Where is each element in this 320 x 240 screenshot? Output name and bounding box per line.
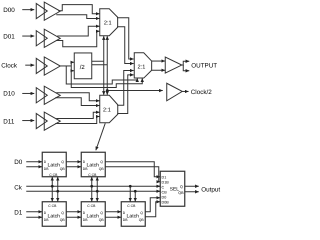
svg-text:D1B: D1B [162,180,170,184]
wire U3 out comp to U2 pin4 [117,75,133,114]
svg-text:D11: D11 [3,118,15,125]
buffer A9 (D11 stage1) [36,113,47,128]
wire Clock lead [25,64,34,66]
divider U4 /2 box [74,53,92,79]
wire half clock comp vertical [106,38,108,94]
pin L2.C arrow [91,177,93,179]
wire L4.Q to L5.D [105,211,121,213]
wire D11 lead [22,120,34,122]
wire D01 lead [22,35,34,37]
wire L1.QB to L2.DB [66,166,81,168]
wire D10 comp to U3 pin2 [55,98,99,106]
buffer A7 (D10 stage1) [36,88,47,103]
svg-text:D10: D10 [3,90,15,97]
wire L4.QB to L5.DB [105,216,121,218]
svg-text:Clock: Clock [1,62,18,69]
junction L5.C tap [129,185,132,188]
pin L3.C arrow [51,199,53,201]
buffer A2 (D00 stage2) [44,2,60,20]
wire OUTPUT true [182,61,190,65]
svg-text:QB: QB [60,218,66,222]
svg-text:C: C [162,185,165,189]
pin U3 sel2 arrow [106,92,108,95]
svg-text:2:1: 2:1 [138,64,146,70]
latch L2 (top row second) [81,152,105,177]
wire D00 true to U1 pin1 [58,5,99,14]
pin U1 sel2 arrow [106,36,108,39]
wire clock stub L5 comp [134,191,136,200]
wire clock stub L5 true [129,186,131,200]
wire divider out comp [92,64,108,66]
svg-text:D0B: D0B [162,200,170,204]
wire L2.QB to SEL.D1B [105,167,160,182]
pin L4.C arrow [91,199,93,201]
buffer A4 (D01 stage2) [44,29,60,47]
svg-text:/2: /2 [80,64,86,71]
pin L2.CB arrow [96,177,98,179]
svg-text:Ck: Ck [14,184,23,191]
latch L5 (bottom row third) [121,202,145,227]
junction L4.CB tap [96,190,99,193]
wire Ck comp line [26,190,160,192]
buffer A11 output driver [165,57,182,73]
latch L1 (top row first) [42,152,66,177]
svg-text:D0: D0 [162,195,167,199]
pin L1.C arrow [51,177,53,179]
buffer A8 (D10 stage2) [44,86,60,104]
svg-text:D: D [44,211,47,215]
wire OUTPUT comp [183,65,189,71]
junction L1.C tap [51,185,54,188]
svg-text:D: D [123,211,126,215]
svg-text:C CB: C CB [87,204,96,208]
pin L1.CB arrow [57,177,59,179]
wire D1 true [26,211,42,213]
svg-text:Clock/2: Clock/2 [191,89,212,96]
mux U1 2:1 top [100,9,118,36]
pin SEL.CB arrow [156,190,160,192]
wire clock stub L2/L4 true [91,178,93,200]
wire L5.QB to SEL.D0B [145,202,160,217]
wire half clock to Clock/2 buffer [107,90,163,92]
svg-text:D00: D00 [3,7,15,14]
pin L5.C arrow [129,199,131,201]
svg-text:CB: CB [162,190,168,194]
mux U3 2:1 bottom [100,95,118,123]
svg-text:Q: Q [61,160,64,164]
mux U5 SEL box [160,171,185,206]
svg-text:C CB: C CB [49,173,58,177]
svg-text:Latch: Latch [48,214,61,220]
wire D10 lead [22,92,34,94]
wire Clock/2 out [182,90,188,92]
svg-text:Latch: Latch [48,163,61,169]
svg-text:2:1: 2:1 [104,21,112,27]
wire L1.Q to L2.D [66,161,81,163]
junction L5.CB tap [134,190,137,193]
wire L3.Q to L4.D [66,211,81,213]
pin U1 sel1 arrow [103,36,105,39]
wire full clock A down-right to U2 sel1 [66,66,137,84]
wire U2 out comp to output buffer [152,69,165,71]
wire L5.Q to SEL.D0 [145,198,160,212]
svg-text:OUTPUT: OUTPUT [191,62,217,69]
wire D00 lead [22,9,34,11]
junction L3.CB tap [56,190,59,193]
svg-text:D0: D0 [14,159,23,166]
wire D00 comp to U1 pin2 [56,15,99,19]
wire divider input comp [71,70,74,72]
wire D01 true to U1 pin3 [57,26,99,36]
buffer A6 (Clock stage2) [44,57,60,75]
wire clock stub L2/L4 comp [96,178,98,200]
svg-text:Q: Q [100,160,103,164]
wire L2.Q to SEL.D1 [105,162,160,177]
pin U3 sel1 arrow [103,92,105,95]
svg-text:Q: Q [61,211,64,215]
wire D01 comp to U1 pin4 [56,31,99,47]
svg-text:C CB: C CB [48,204,57,208]
pin L5.CB arrow [134,199,136,201]
buffer A5 (Clock stage1) [36,58,47,73]
junction half clock comp tap [106,89,109,92]
wire U1 out true to U2 pin1 [117,18,134,59]
svg-text:D01: D01 [3,33,15,40]
latch L4 (bottom row second) [81,202,105,227]
wire D11 comp to U3 pin4 [55,116,99,123]
svg-text:D: D [44,160,47,164]
wire U1 out comp to U2 pin2 [117,27,134,64]
buffer A3 (D01 stage1) [36,31,47,46]
wire D11 true to U3 pin3 [56,112,99,118]
wire clock buffer to divider fork [60,65,71,67]
annotation arrow mux to latch implementation [96,123,105,150]
svg-text:D: D [83,211,86,215]
wire SEL.Q output [185,185,199,187]
wire D1 comp [26,216,42,218]
mux U2 2:1 middle [134,53,151,78]
svg-text:Q: Q [100,211,103,215]
wire clock stub L1/L3 true [51,178,53,200]
svg-text:Output: Output [201,186,220,193]
svg-text:C CB: C CB [88,173,97,177]
wire Ck true line [26,185,160,187]
wire half clock true vertical U1 sel to U3 sel [103,38,105,94]
wire L3.QB to L4.DB [66,216,81,218]
wire U3 out true to U2 pin3 [117,71,133,106]
wire D0 comp [26,166,42,168]
svg-text:Latch: Latch [87,214,100,220]
buffer A12 clock/2 driver [167,83,183,101]
junction L2.C tap [90,185,93,188]
wire D0 true [26,161,42,163]
pin L4.CB arrow [96,199,98,201]
wire divider input true [71,61,74,63]
svg-text:QB: QB [139,218,145,222]
svg-text:QB: QB [99,218,105,222]
svg-text:C CB: C CB [127,204,136,208]
buffer A1 (D00 stage1) [36,3,47,18]
svg-text:Q: Q [180,185,183,189]
latch L3 (bottom row first) [42,202,66,227]
pin SEL.C arrow [156,185,160,187]
pin L3.CB arrow [57,199,59,201]
wire D10 true to U3 pin1 [56,93,99,101]
svg-text:QB: QB [60,167,66,171]
svg-text:D1: D1 [14,209,23,216]
wire SEL.QB output [185,191,199,193]
wire divider out true to clock half vertical [92,60,104,62]
svg-text:QB: QB [99,167,105,171]
svg-text:D: D [83,160,86,164]
wire full clock B down-right to U2 sel2 [71,71,142,88]
wire clock stub L1/L3 comp [57,178,59,200]
svg-text:Q: Q [140,211,143,215]
buffer A10 (D11 stage2) [44,112,60,130]
svg-text:2:1: 2:1 [103,107,111,113]
svg-text:QB: QB [178,191,184,195]
svg-text:D1: D1 [162,175,167,179]
svg-text:Latch: Latch [87,163,100,169]
wire divider input fork vertical [70,62,72,70]
svg-text:Latch: Latch [127,214,140,220]
wire U2 out true to output buffer [152,60,165,62]
